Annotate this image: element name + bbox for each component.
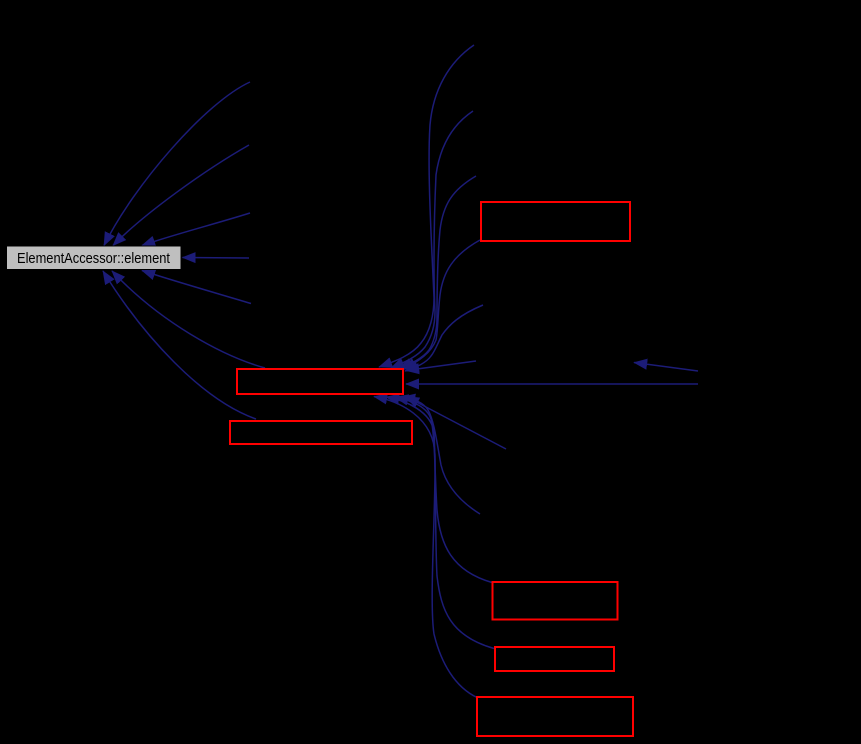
edge into gray box right side (horizontal) xyxy=(183,257,250,260)
node: lower-left red box xyxy=(230,421,412,444)
edge into gray box from node at (249,145) xyxy=(113,145,249,246)
long horizontal edge from (698,384) into central box right edge xyxy=(406,383,698,385)
lower straight edge from (506,449) into central box bottom-right corner xyxy=(406,397,506,450)
svg-text:ElementAccessor::element: ElementAccessor::element xyxy=(17,250,171,267)
node: box C xyxy=(477,697,633,736)
lower spine edge from box C (477,698) xyxy=(374,397,477,698)
lower spine edge from (480,514) xyxy=(402,397,480,514)
edge into gray box from node at (250,213) xyxy=(142,213,250,246)
straight edge from (476,361) into central box right edge xyxy=(406,361,476,371)
edge into gray box from node at (250,82) xyxy=(104,82,250,246)
edge from central red box to gray box xyxy=(112,271,265,368)
edge from lower red box to gray box xyxy=(103,271,256,419)
node: box B xyxy=(495,647,614,671)
node: central red box xyxy=(237,369,403,394)
short floating arrow from (698,371) xyxy=(634,363,698,372)
edge into gray box from node at (249,302) xyxy=(142,271,251,304)
node: truncated caller box top right xyxy=(481,202,630,241)
lower spine edge from box A (492,583) xyxy=(395,397,492,583)
upper spine edge from (481,178) xyxy=(399,176,476,369)
lower spine edge from box B (494,649) xyxy=(386,397,494,649)
upper spine edge from (481,106) xyxy=(391,111,473,368)
node: ElementAccessor::element (current) xyxy=(7,246,182,270)
node: box A xyxy=(493,582,618,620)
upper spine edge from (483,305) xyxy=(405,305,483,371)
upper spine edge from red box (480,240) xyxy=(403,240,480,370)
upper spine edge from (470,42) xyxy=(379,45,474,367)
